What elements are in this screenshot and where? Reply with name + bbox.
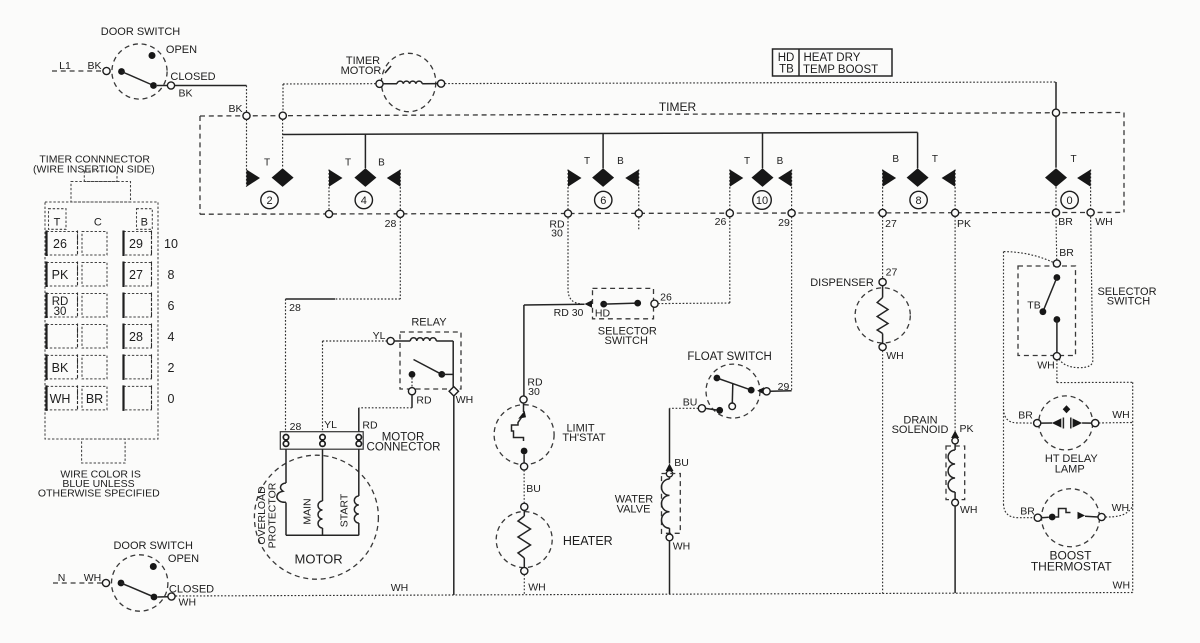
wire timer motor output to cam 0: [445, 82, 1056, 84]
svg-text:RD: RD: [362, 420, 378, 432]
svg-text:26: 26: [53, 237, 67, 251]
timer connector row 8: [47, 263, 78, 287]
door switch S1 OPEN contact: [149, 52, 156, 59]
svg-text:(WIRE INSERTION SIDE): (WIRE INSERTION SIDE): [33, 163, 155, 175]
wire N lead: [53, 582, 102, 584]
svg-text:27: 27: [885, 218, 897, 230]
svg-text:BR: BR: [1058, 216, 1073, 228]
svg-text:29: 29: [778, 217, 790, 229]
dispenser element: [879, 279, 886, 286]
motor START winding: [358, 449, 360, 496]
motor MAIN winding: [322, 449, 324, 501]
svg-text:28: 28: [129, 330, 143, 344]
svg-text:TB: TB: [779, 64, 794, 76]
wire RD30 down to limit thermostat: [523, 305, 525, 396]
svg-text:WH: WH: [179, 597, 197, 609]
svg-text:OPEN: OPEN: [166, 44, 197, 56]
svg-text:B: B: [378, 158, 385, 169]
svg-text:T: T: [932, 154, 938, 165]
wire WH dispenser to bus: [882, 351, 884, 594]
svg-text:30: 30: [551, 228, 563, 240]
svg-text:FLOAT SWITCH: FLOAT SWITCH: [687, 351, 772, 363]
svg-text:T: T: [584, 156, 590, 167]
wire YL vertical: [322, 341, 324, 432]
terminal cam6 right: [635, 210, 642, 217]
svg-text:BR: BR: [86, 392, 103, 406]
timer assembly dashed outline: [200, 113, 1124, 117]
svg-text:B: B: [141, 217, 148, 229]
svg-text:WH: WH: [960, 504, 978, 516]
HT delay lamp outline: [1039, 396, 1093, 450]
wire WH water valve to bus: [669, 541, 671, 594]
svg-text:6: 6: [168, 299, 175, 313]
svg-text:WH: WH: [84, 572, 102, 584]
svg-text:N: N: [58, 572, 66, 584]
svg-text:YL: YL: [373, 330, 386, 342]
wire 27 cam8 to dispenser: [882, 217, 884, 279]
door switch S2 blade and contacts: [102, 579, 109, 586]
overload protector: [285, 449, 287, 483]
svg-text:27: 27: [886, 267, 898, 279]
wire WH right trunk: [1056, 360, 1058, 383]
svg-text:WH: WH: [1112, 502, 1130, 514]
terminal RD relay: [408, 388, 415, 395]
svg-text:LAMP: LAMP: [1055, 464, 1085, 476]
wire RD relay to motor connector: [411, 395, 413, 408]
terminal cam4 left: [325, 210, 332, 217]
svg-text:OPEN: OPEN: [168, 553, 199, 565]
limit thermostat element: [520, 396, 527, 403]
svg-text:TH'STAT: TH'STAT: [562, 432, 606, 444]
svg-text:MAIN: MAIN: [302, 498, 314, 524]
svg-text:DOOR SWITCH: DOOR SWITCH: [113, 540, 192, 552]
terminal cam 0 feed on timer top: [1052, 109, 1059, 116]
svg-text:PK: PK: [957, 218, 971, 230]
timer cam switch 2: [246, 119, 248, 186]
wire timer-motor feed (left branch): [282, 84, 284, 116]
selector switch TB contacts: [1053, 260, 1060, 267]
wire BU float switch to water valve: [670, 407, 699, 409]
svg-text:29: 29: [778, 381, 790, 393]
svg-text:WH: WH: [1112, 409, 1130, 421]
svg-text:4: 4: [168, 330, 175, 344]
svg-text:2: 2: [266, 195, 272, 207]
svg-text:BK: BK: [228, 103, 242, 115]
heater outline: [496, 512, 552, 568]
svg-text:VALVE: VALVE: [617, 503, 651, 515]
svg-text:HD: HD: [595, 308, 611, 320]
relay coil: [387, 337, 394, 344]
svg-text:CLOSED: CLOSED: [170, 71, 215, 83]
svg-text:8: 8: [916, 195, 922, 207]
wire cam feed bus: [283, 132, 918, 134]
svg-text:RD: RD: [416, 395, 432, 407]
terminal cam0 bottom (BR): [1052, 209, 1059, 216]
motor M outline: [254, 455, 378, 579]
svg-text:WH: WH: [391, 582, 409, 594]
svg-text:10: 10: [756, 195, 768, 207]
selector switch TB outline: [1018, 266, 1076, 356]
relay K1 outline: [400, 332, 461, 389]
svg-text:B: B: [617, 156, 624, 167]
terminal cam4 right (28): [397, 210, 404, 217]
svg-text:THERMOSTAT: THERMOSTAT: [1031, 560, 1113, 574]
svg-text:SWITCH: SWITCH: [605, 335, 648, 347]
timer cam switch 4: [328, 170, 330, 215]
svg-text:10: 10: [164, 237, 178, 251]
svg-text:T: T: [345, 158, 351, 169]
wire 26 to cam10: [658, 302, 730, 305]
wire BR to lamp and thermostat: [1004, 252, 1053, 263]
svg-text:WH: WH: [1037, 360, 1055, 372]
svg-text:MOTOR: MOTOR: [295, 552, 343, 567]
svg-text:HEATER: HEATER: [563, 534, 613, 548]
svg-text:4: 4: [361, 195, 367, 207]
svg-text:28: 28: [289, 302, 301, 314]
wire RD30 from cam6: [568, 218, 582, 304]
svg-text:WH: WH: [673, 541, 691, 553]
terminal cam10 right (29): [788, 210, 795, 217]
svg-text:0: 0: [168, 392, 175, 406]
float switch outline: [706, 364, 760, 418]
svg-text:T: T: [264, 158, 270, 169]
timer connector row 0: [47, 386, 78, 410]
terminal cam10 left (26): [726, 210, 733, 217]
timer connector row 2: [47, 355, 78, 379]
svg-text:PROTECTOR: PROTECTOR: [267, 482, 279, 548]
svg-text:WH: WH: [528, 582, 546, 594]
svg-text:BU: BU: [526, 483, 541, 495]
svg-text:CLOSED: CLOSED: [169, 584, 214, 596]
motor connector block: [280, 432, 363, 450]
svg-text:L1: L1: [59, 60, 71, 72]
svg-text:27: 27: [129, 268, 143, 282]
svg-text:TB: TB: [1027, 300, 1040, 312]
wire 29 cam10 to float switch: [791, 217, 793, 391]
svg-text:T: T: [1071, 154, 1077, 165]
svg-text:BK: BK: [178, 88, 192, 100]
svg-text:26: 26: [660, 292, 672, 304]
door switch S2 (lower) outline: [112, 555, 168, 611]
svg-text:BU: BU: [683, 397, 698, 409]
timer cam switch 10: [729, 170, 731, 214]
timer connector row 6: [47, 294, 78, 318]
timer motor TM outline: [381, 53, 435, 111]
limit thermostat outline: [494, 405, 554, 465]
svg-text:WH: WH: [886, 350, 904, 362]
wire BU limit to heater: [523, 470, 525, 503]
wire 28 cam4 to motor connector: [399, 217, 401, 299]
terminal cam0 right (WH): [1087, 209, 1094, 216]
svg-text:2: 2: [168, 361, 175, 375]
svg-text:RD 30: RD 30: [554, 307, 584, 319]
wire WH heater to bus: [523, 575, 525, 595]
heater element: [521, 503, 528, 510]
svg-text:6: 6: [600, 195, 606, 207]
svg-text:BK: BK: [87, 60, 101, 72]
svg-text:RELAY: RELAY: [411, 317, 447, 329]
timer cam switch 0: [1045, 168, 1067, 187]
wire WH lamp tap: [1099, 422, 1133, 425]
terminal timer-motor on timer top: [279, 112, 286, 119]
wire RD30 horizontal: [524, 303, 585, 306]
terminal cam8 right (PK): [952, 209, 959, 216]
wire WH thermostat tap: [1105, 504, 1132, 518]
timer cam switch 8: [882, 170, 884, 213]
svg-text:WH: WH: [1095, 216, 1113, 228]
selector switch HD: [593, 288, 654, 318]
svg-text:YL: YL: [324, 419, 337, 431]
door switch S1 blade and contacts: [103, 67, 110, 74]
dispenser outline: [855, 288, 910, 343]
svg-text:26: 26: [715, 216, 727, 228]
wire WH neutral bus: [176, 593, 1133, 597]
svg-text:PK: PK: [960, 423, 974, 435]
svg-text:BU: BU: [674, 457, 689, 469]
terminal WH relay: [449, 387, 458, 396]
terminal cam6 left (RD 30): [564, 210, 571, 217]
svg-text:SWITCH: SWITCH: [1107, 295, 1150, 307]
svg-text:CONNECTOR: CONNECTOR: [367, 442, 441, 454]
svg-text:MOTOR: MOTOR: [341, 65, 382, 77]
svg-text:OTHERWISE SPECIFIED: OTHERWISE SPECIFIED: [38, 488, 160, 500]
legend box HD/TB: [773, 49, 893, 76]
svg-text:B: B: [777, 156, 784, 167]
svg-text:28: 28: [385, 218, 397, 230]
motor common wire: [286, 534, 359, 536]
wire YL to relay: [323, 340, 387, 342]
float switch contacts: [714, 375, 721, 382]
svg-text:BR: BR: [1018, 410, 1033, 422]
relay switch contacts: [414, 360, 442, 375]
svg-text:HD: HD: [778, 52, 795, 64]
svg-text:WH: WH: [456, 394, 474, 406]
terminal BK on timer top: [243, 112, 250, 119]
svg-text:WH: WH: [50, 392, 71, 406]
svg-text:30: 30: [54, 306, 67, 318]
wire BR cam0 to selector switch: [1055, 216, 1058, 260]
timer connector housing: [45, 202, 158, 439]
svg-text:TEMP BOOST: TEMP BOOST: [803, 64, 878, 76]
svg-text:B: B: [892, 154, 899, 165]
svg-text:C: C: [94, 217, 102, 229]
svg-text:T: T: [744, 156, 750, 167]
svg-text:T: T: [54, 217, 61, 229]
svg-text:8: 8: [168, 268, 175, 282]
wire L1 lead: [52, 70, 103, 72]
svg-text:PK: PK: [52, 268, 69, 282]
svg-text:HEAT DRY: HEAT DRY: [804, 52, 861, 64]
svg-text:BK: BK: [52, 361, 69, 375]
timer cam switch 6: [567, 170, 569, 214]
timer connector row 4: [47, 325, 78, 349]
svg-text:0: 0: [1067, 195, 1073, 207]
door switch S2 OPEN contact: [150, 563, 157, 570]
wire WH cam0 to selector switch: [1059, 217, 1093, 368]
timer motor TM coil: [376, 80, 383, 87]
svg-text:BR: BR: [1059, 247, 1074, 259]
svg-text:30: 30: [528, 386, 540, 398]
timer connector row 10: [47, 232, 78, 256]
svg-text:DOOR SWITCH: DOOR SWITCH: [101, 26, 180, 38]
wire WH relay to bus: [453, 396, 455, 595]
svg-text:WH: WH: [1113, 580, 1131, 592]
wire PK cam8 to drain solenoid: [954, 216, 956, 430]
svg-text:SOLENOID: SOLENOID: [892, 424, 949, 436]
svg-text:START: START: [338, 493, 350, 527]
svg-text:29: 29: [129, 237, 143, 251]
svg-text:DISPENSER: DISPENSER: [810, 277, 874, 289]
door switch S1 (upper) outline: [112, 44, 167, 99]
wire WH drain solenoid to bus: [954, 506, 956, 593]
terminal cam8 left (27): [879, 209, 886, 216]
svg-text:BR: BR: [1020, 506, 1035, 518]
wire BK door switch to timer terminal: [175, 85, 247, 87]
svg-text:28: 28: [290, 421, 302, 433]
svg-text:TIMER: TIMER: [659, 100, 697, 114]
boost thermostat outline: [1042, 489, 1100, 547]
